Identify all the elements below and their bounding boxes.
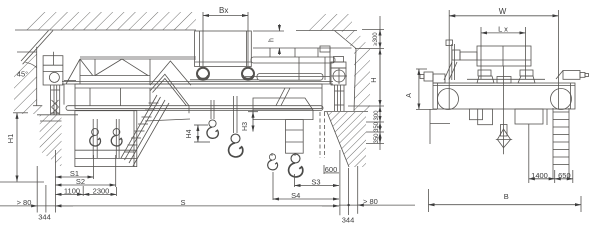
cab hook 2 bbox=[111, 129, 122, 146]
right end truck bbox=[330, 49, 347, 112]
girder sections below bbox=[470, 109, 544, 125]
svg-text:600: 600 bbox=[325, 165, 338, 174]
left ceiling hatch bbox=[20, 12, 196, 30]
45 deg arc bbox=[26, 63, 37, 68]
right corbel slope edge bbox=[327, 112, 349, 167]
hook end view bbox=[496, 110, 512, 154]
buffers bbox=[420, 71, 589, 84]
svg-text:300: 300 bbox=[374, 110, 380, 121]
dim S1 bbox=[55, 155, 93, 179]
dim B bbox=[429, 109, 582, 212]
hook main right bbox=[289, 153, 303, 177]
dashed clearance lines bbox=[319, 112, 321, 158]
stairs to cab bbox=[121, 95, 190, 166]
dim S2 bbox=[55, 155, 115, 187]
svg-text:H3: H3 bbox=[242, 122, 249, 131]
floor line bbox=[0, 181, 44, 183]
dim S4 bbox=[273, 172, 339, 200]
dim Bx bbox=[203, 12, 248, 66]
end carriage bbox=[430, 62, 575, 125]
left wall inner face bbox=[36, 47, 38, 106]
ladder bbox=[553, 108, 569, 179]
left wall ledge line bbox=[17, 51, 37, 53]
hook small centre (rope) bbox=[207, 100, 218, 138]
dim S3 bbox=[295, 174, 340, 187]
svg-text:> 80: > 80 bbox=[363, 197, 378, 206]
hook large centre (rope) bbox=[229, 96, 243, 157]
hook aux right bbox=[268, 153, 278, 170]
left wall hatch bbox=[14, 50, 42, 114]
dim H4 bbox=[194, 125, 210, 142]
dim H3 bbox=[248, 112, 258, 132]
svg-text:S3: S3 bbox=[311, 178, 320, 187]
svg-text:650: 650 bbox=[558, 171, 571, 180]
svg-text:W: W bbox=[499, 7, 507, 16]
operator cab bbox=[75, 111, 137, 167]
walkway truss handrail bbox=[64, 57, 196, 113]
dim >=300 / H / 300 / 350 / 350 right stack bbox=[348, 16, 384, 150]
svg-text:Bx: Bx bbox=[219, 6, 228, 15]
right wall face bbox=[354, 49, 356, 112]
right ceiling cut line bbox=[296, 30, 357, 32]
svg-text:2300: 2300 bbox=[93, 187, 110, 196]
svg-text:1400: 1400 bbox=[531, 171, 548, 180]
dim W bbox=[449, 10, 558, 109]
svg-text:S: S bbox=[180, 198, 185, 207]
runway rail pedestal left bbox=[51, 85, 60, 115]
right corbel bbox=[327, 112, 366, 167]
dim 1100 / 2300 bbox=[55, 186, 116, 196]
dim Lx bbox=[481, 27, 526, 79]
svg-text:1100: 1100 bbox=[64, 187, 80, 196]
svg-text:H: H bbox=[369, 77, 378, 82]
svg-text:344: 344 bbox=[38, 213, 51, 222]
dim h bbox=[253, 24, 284, 55]
dim A bbox=[416, 69, 437, 109]
carriage wheels bbox=[438, 89, 459, 110]
dim 1400 / 650 bbox=[529, 124, 573, 183]
svg-text:350: 350 bbox=[374, 121, 380, 132]
hoist machinery house under girder bbox=[253, 98, 313, 153]
left corbel bbox=[40, 115, 62, 167]
trolley bbox=[190, 31, 258, 80]
svg-text:45°: 45° bbox=[17, 70, 28, 79]
svg-text:350: 350 bbox=[374, 133, 380, 144]
svg-text:> 80: > 80 bbox=[17, 198, 32, 207]
svg-text:A: A bbox=[406, 93, 413, 98]
svg-text:B: B bbox=[504, 192, 509, 201]
right wall hatch bbox=[341, 31, 370, 112]
left end truck bbox=[43, 52, 76, 85]
left ceiling cut line bbox=[15, 29, 196, 31]
main girder bbox=[62, 82, 333, 111]
left wall 45 deg chamfer bbox=[23, 31, 53, 65]
svg-text:S2: S2 bbox=[76, 177, 85, 186]
svg-text:h: h bbox=[269, 38, 276, 42]
left wall step bbox=[33, 105, 42, 107]
svg-text:344: 344 bbox=[342, 216, 355, 225]
svg-text:L x: L x bbox=[498, 25, 508, 34]
dim S and bottom chain line bbox=[0, 205, 37, 207]
svg-text:S4: S4 bbox=[291, 191, 300, 200]
right ceiling hatch bbox=[299, 14, 352, 31]
svg-text:H1: H1 bbox=[6, 134, 15, 144]
dim H1 bbox=[13, 113, 28, 182]
svg-text:H4: H4 bbox=[186, 129, 193, 138]
svg-text:≥300: ≥300 bbox=[373, 32, 379, 46]
right wall 45 chamfer bbox=[334, 31, 356, 49]
dim 600 bbox=[324, 165, 339, 174]
cab hook 1 bbox=[90, 129, 101, 146]
dim 344 right bbox=[339, 150, 415, 215]
trolley end view bbox=[446, 40, 535, 83]
right walkway rails bbox=[245, 46, 352, 80]
dim 344 left extension lines bbox=[37, 150, 55, 213]
